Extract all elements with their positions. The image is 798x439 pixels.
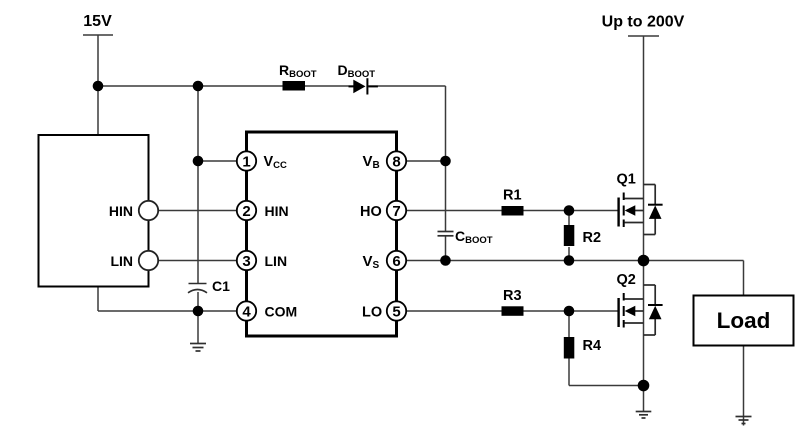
wire vertical VCC net x=198 xyxy=(197,86,199,283)
resistor R4 xyxy=(564,337,575,359)
svg-text:5: 5 xyxy=(392,303,400,320)
Q1 body diode branch xyxy=(644,185,656,235)
svg-text:8: 8 xyxy=(392,153,400,170)
svg-text:15V: 15V xyxy=(83,13,112,30)
ground (Q2 source) xyxy=(636,412,652,419)
transistor Q1 xyxy=(619,185,663,235)
node R2 bottom junction xyxy=(564,255,575,266)
Q1 drain stub xyxy=(625,198,644,200)
svg-text:2: 2 xyxy=(242,203,250,220)
svg-text:C1: C1 xyxy=(212,278,230,294)
svg-text:HIN: HIN xyxy=(265,203,289,219)
capacitor C_BOOT xyxy=(438,232,454,236)
svg-text:LIN: LIN xyxy=(265,253,288,269)
Q2 source stub xyxy=(625,322,644,324)
wire R4 node to Q2 gate xyxy=(569,310,618,312)
wire COM ground stub xyxy=(197,311,199,344)
supply terminal 15V bar xyxy=(83,34,113,36)
node pin1 junction xyxy=(193,156,204,167)
wire load top drop xyxy=(743,261,745,296)
svg-text:LIN: LIN xyxy=(110,253,133,269)
Q2 diode cathode bar xyxy=(648,304,663,306)
Q2 gate bar xyxy=(617,298,619,327)
svg-text:Q1: Q1 xyxy=(617,172,636,188)
node C_BOOT/VS junction xyxy=(440,255,451,266)
svg-text:Q2: Q2 xyxy=(617,272,636,288)
wire pin8 to VB node xyxy=(406,160,446,162)
wire pin7 to R1 xyxy=(406,210,502,212)
pin 4 xyxy=(237,301,256,320)
node R2 top junction xyxy=(564,205,575,216)
svg-text:3: 3 xyxy=(242,253,250,270)
pin 6 xyxy=(387,251,406,270)
wire C1 bottom to COM row xyxy=(197,292,199,311)
ground (COM) xyxy=(190,344,206,352)
Q2 drain stub xyxy=(625,298,644,300)
wire R2 bottom lead xyxy=(568,247,570,261)
supply terminal 200V bar xyxy=(628,35,659,37)
wire R1 to R2 node xyxy=(524,210,570,212)
wire corner down to VB node xyxy=(445,86,447,231)
pin 1 xyxy=(237,151,256,170)
wire R4 top lead xyxy=(568,311,570,337)
node 15V rail junction xyxy=(93,81,104,92)
input block xyxy=(39,135,149,287)
svg-text:COM: COM xyxy=(265,304,298,320)
Q1 source stub xyxy=(625,222,644,224)
Q1 gate bar xyxy=(617,198,619,227)
load box xyxy=(694,296,794,346)
svg-text:7: 7 xyxy=(392,203,400,220)
wire Q2 source node ground stub xyxy=(643,386,645,412)
wire top rail horizontal xyxy=(98,85,283,87)
node R4 top junction xyxy=(564,306,575,317)
svg-text:LO: LO xyxy=(362,305,382,321)
wire COM row horizontal xyxy=(98,310,237,312)
svg-text:Load: Load xyxy=(717,308,771,333)
Q2 body diode branch xyxy=(644,285,656,335)
diode D_BOOT xyxy=(349,78,378,94)
node VCC net top junction xyxy=(193,81,204,92)
pin 5 xyxy=(387,301,406,320)
svg-text:R3: R3 xyxy=(503,288,522,304)
wire R4 bottom lead xyxy=(568,359,570,386)
wire R4 to source node xyxy=(569,385,644,387)
resistor R3 xyxy=(502,306,524,316)
wire pin6 VS row xyxy=(406,260,644,262)
wire HIN circle to pin2 xyxy=(158,210,237,212)
pin 7 xyxy=(387,201,406,220)
Q2 body arrow xyxy=(632,310,644,312)
wire R3 to R4 node xyxy=(524,310,570,312)
pin 8 xyxy=(387,151,406,170)
svg-text:HO: HO xyxy=(360,204,382,220)
wire D_BOOT to corner xyxy=(368,85,446,87)
wire block bottom stub xyxy=(97,287,99,312)
wire pin1 to VCC net xyxy=(198,160,237,162)
node LIN input circle xyxy=(139,251,158,270)
svg-text:R1: R1 xyxy=(503,188,522,204)
resistor R_BOOT xyxy=(283,81,306,91)
wire 15V down to top rail xyxy=(97,35,99,135)
node HIN input circle xyxy=(139,201,158,220)
wire load bottom to ground xyxy=(743,346,745,426)
svg-text:1: 1 xyxy=(242,153,250,170)
svg-text:4: 4 xyxy=(242,303,251,320)
ground (load) xyxy=(736,417,752,424)
wire 200V rail down to Q1 xyxy=(643,36,645,261)
pin 2 xyxy=(237,201,256,220)
transistor Q2 xyxy=(619,285,663,335)
wire LIN circle to pin3 xyxy=(158,260,237,262)
svg-text:6: 6 xyxy=(392,253,400,270)
wire VS row to load corner xyxy=(644,260,744,262)
pin 3 xyxy=(237,251,256,270)
wire C_BOOT bottom to VS node xyxy=(445,236,447,261)
resistor R2 xyxy=(564,225,575,246)
Q1 channel segments xyxy=(623,193,625,228)
node VB junction xyxy=(440,156,451,167)
node Q2 source junction xyxy=(638,380,650,392)
wire R2 node to Q1 gate xyxy=(569,210,618,212)
Q1 diode cathode bar xyxy=(648,204,663,206)
svg-text:R4: R4 xyxy=(583,338,602,354)
Q2 diode triangle xyxy=(649,306,662,320)
Q2 channel segments xyxy=(623,293,625,328)
svg-text:R2: R2 xyxy=(583,230,602,246)
node half-bridge midpoint xyxy=(638,255,650,267)
wire R_BOOT to D_BOOT xyxy=(305,85,354,87)
wire Q1-Q2 midpoint to Q2 drain xyxy=(643,261,645,386)
Q1 body arrow xyxy=(632,210,644,212)
wire R2 top lead xyxy=(568,211,570,227)
Q1 diode triangle xyxy=(649,205,662,219)
svg-text:HIN: HIN xyxy=(109,203,133,219)
svg-text:Up to 200V: Up to 200V xyxy=(602,14,685,31)
capacitor C1 xyxy=(188,284,207,293)
resistor R1 xyxy=(502,206,524,216)
IC body U1 xyxy=(247,132,397,336)
node COM junction xyxy=(193,306,204,317)
wire pin5 to R3 xyxy=(406,310,502,312)
